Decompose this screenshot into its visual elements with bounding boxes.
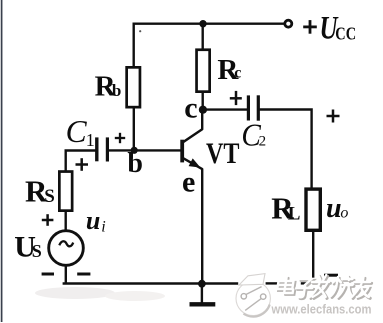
node c [199,106,207,114]
svg-text:b: b [127,148,143,179]
svg-text:1: 1 [86,130,95,150]
svg-text:u: u [326,193,342,224]
wire top rail with drop to Rb [134,24,284,66]
svg-text:e: e [182,165,195,198]
wire base: C1 to transistor [109,149,181,151]
svg-text:CC: CC [335,24,356,44]
svg-text:c: c [234,64,241,81]
plus before C2 [230,91,242,105]
wire bottom rail segment 3 [302,282,309,284]
svg-text:u: u [86,206,100,235]
plus above C1 [115,133,125,143]
wire RS to source [64,212,66,230]
node emitter/ground junction [198,280,206,288]
wire collector [184,110,203,142]
wire node c to C2 [203,108,247,110]
svg-text:2: 2 [259,133,267,149]
terminal +Ucc [285,20,292,27]
smudge bottom-left scan shadow [35,287,115,299]
watermark logo: elecfans circle with ribbon [236,274,270,317]
svg-text:c: c [184,92,197,125]
svg-text:VT: VT [206,137,240,170]
wire source bottom and bottom rail segment 1 [64,266,237,283]
capacitor C2 plates [248,95,258,120]
minus below US right [77,273,90,276]
svg-text:b: b [112,81,121,100]
wire input corner to C1 [66,151,96,171]
minus below US left [42,273,54,276]
svg-text:S: S [32,241,42,261]
wire RL bottom [312,232,314,277]
node b [131,147,138,154]
wire Rb bottom to node b [133,109,135,151]
scan noise dot [139,30,141,32]
capacitor C1 plates [97,137,108,161]
resistor RS [59,172,72,211]
transistor VT emitter arrow [189,158,201,167]
svg-text:C: C [66,113,88,149]
wire C2 to RL top corner [260,110,312,188]
plus Ucc [303,20,317,34]
wire bottom rail segment 2 [267,282,278,284]
scan border line left edge [1,0,3,322]
node junction top rail/Rc [199,20,206,27]
ground bar [190,302,216,306]
wire emitter [184,159,202,284]
source US tilde [59,241,73,246]
resistor Rc [197,50,210,92]
svg-text:L: L [288,204,301,225]
transistor VT base bar [180,140,184,163]
wire Rc to node c [201,93,203,111]
svg-text:i: i [101,218,105,235]
minus uo bottom [324,274,338,277]
svg-text:www.elecfans.com: www.elecfans.com [271,302,372,317]
plus below C1 left [76,158,89,171]
svg-text:S: S [44,186,55,207]
plus uo [327,110,340,123]
resistor Rb [127,67,140,107]
source US circle [49,231,84,266]
plus above US [42,214,54,226]
wire ground stem [201,284,203,303]
svg-text:o: o [340,205,348,222]
resistor RL [306,189,320,230]
wire Rc to top rail [201,24,203,49]
